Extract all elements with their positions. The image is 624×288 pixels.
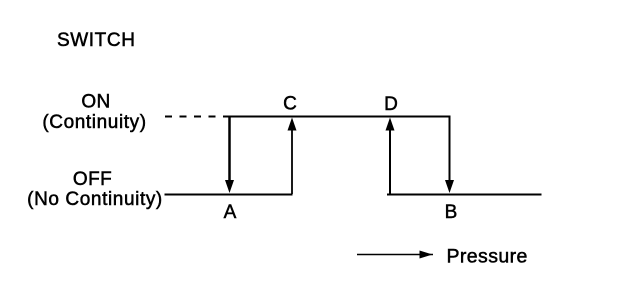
- wire OFF level right segment: [387, 194, 542, 196]
- svg-text:C: C: [283, 94, 297, 115]
- svg-text:(Continuity): (Continuity): [42, 112, 146, 133]
- wire OFF level left segment: [165, 194, 293, 196]
- arrow falling edge at B: [445, 117, 454, 194]
- svg-text:A: A: [224, 202, 237, 223]
- wire dashed ON-level leader: [165, 116, 229, 118]
- svg-text:Pressure: Pressure: [447, 246, 528, 268]
- label ON (Continuity): [42, 92, 146, 134]
- arrow rising edge at C: [288, 118, 297, 195]
- svg-text:(No Continuity): (No Continuity): [27, 189, 163, 210]
- arrow rising edge at D: [386, 118, 395, 195]
- svg-text:D: D: [384, 94, 398, 115]
- wire ON plateau: [228, 116, 450, 118]
- svg-text:B: B: [445, 202, 458, 223]
- svg-text:ON: ON: [81, 92, 110, 113]
- svg-text:OFF: OFF: [73, 169, 112, 190]
- pressure axis arrow: [357, 251, 433, 259]
- label OFF (No Continuity): [27, 169, 163, 210]
- arrow falling edge at A: [225, 117, 234, 194]
- svg-text:SWITCH: SWITCH: [57, 30, 136, 51]
